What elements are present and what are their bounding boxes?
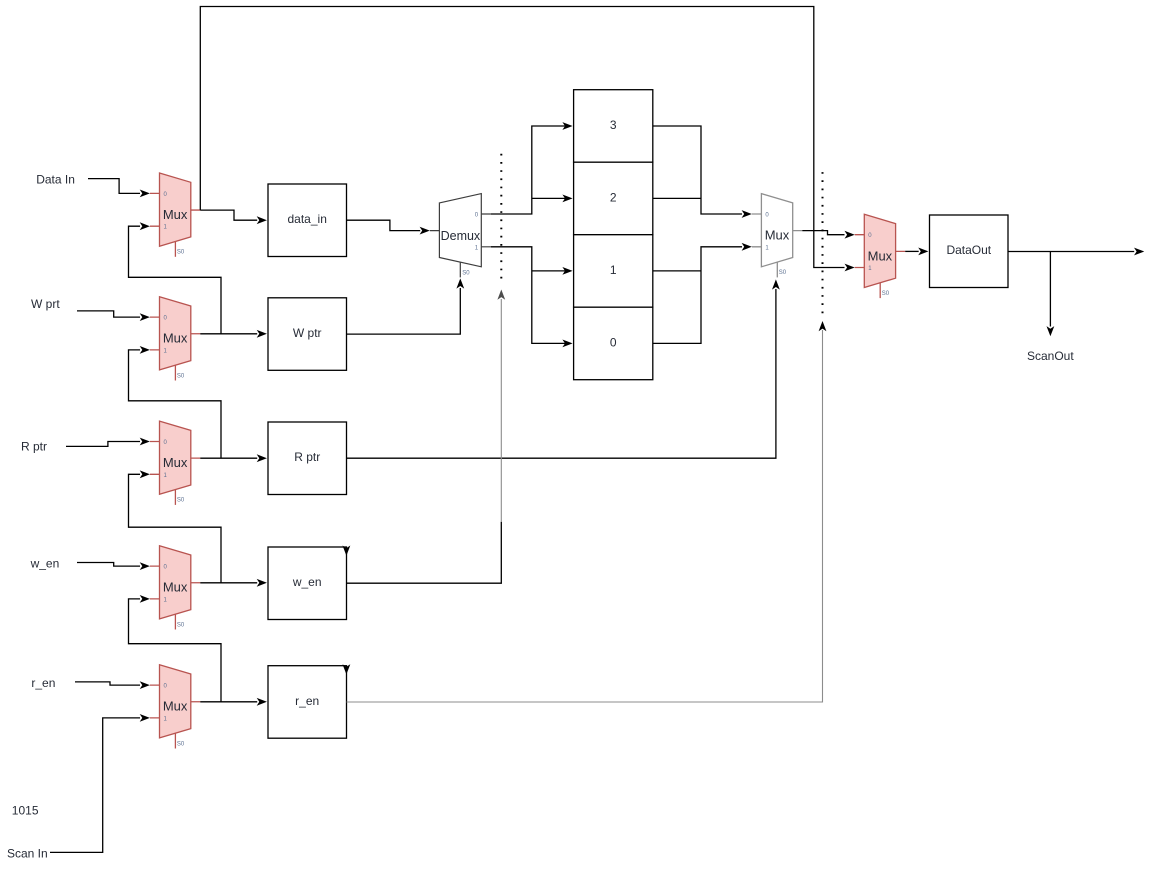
svg-text:S0: S0 bbox=[779, 270, 787, 276]
mux U4 (scan mux, pink) bbox=[150, 546, 201, 630]
wire Mux U8 output to DataOut register bbox=[905, 248, 928, 256]
wire data_in register to Demux input bbox=[347, 220, 430, 234]
svg-text:Mux: Mux bbox=[163, 455, 188, 470]
demux U6 bbox=[430, 194, 491, 278]
svg-text:Mux: Mux bbox=[868, 248, 893, 263]
wire Demux output 1 to cells 1 and 0 bbox=[491, 247, 573, 347]
svg-text:0: 0 bbox=[610, 335, 617, 349]
register r_en bbox=[268, 666, 347, 739]
mux U5 (scan mux, pink) bbox=[150, 665, 201, 749]
mux U3 (scan mux, pink) bbox=[150, 421, 201, 505]
wire r_en register up to read-enable dotted line bbox=[347, 321, 827, 702]
wire cells 0 and 1 to Mux U7 input 1 bbox=[653, 243, 752, 343]
wire Data In to mux input 0 bbox=[88, 179, 150, 198]
wire scan chain from Mux U5 output up to Mux U4 input 1 bbox=[129, 595, 222, 702]
wire Mux U1 output to data_in register bbox=[200, 210, 267, 224]
wire R ptr to mux input 0 bbox=[66, 438, 150, 447]
svg-text:S0: S0 bbox=[177, 622, 185, 628]
svg-text:R ptr: R ptr bbox=[294, 450, 320, 464]
register file cell 1 bbox=[574, 235, 653, 308]
wire scan chain from Mux U4 output up to Mux U3 input 1 bbox=[129, 470, 222, 582]
wire Mux U7 output to Mux U8 input 0 bbox=[802, 231, 854, 239]
svg-text:Data In: Data In bbox=[36, 173, 75, 187]
wire scan chain from Mux U2 output up to Mux U1 input 1 bbox=[129, 222, 222, 333]
svg-text:r_en: r_en bbox=[31, 676, 55, 690]
node R ptr input label bbox=[21, 440, 47, 454]
svg-text:DataOut: DataOut bbox=[946, 243, 991, 257]
wire Scan In to Mux U5 input 1 bbox=[50, 714, 150, 852]
node Scan In label bbox=[7, 847, 48, 861]
node W prt input label bbox=[31, 297, 60, 311]
svg-text:Scan In: Scan In bbox=[7, 847, 48, 861]
svg-text:S0: S0 bbox=[177, 741, 185, 747]
register R ptr bbox=[268, 422, 347, 495]
svg-text:Demux: Demux bbox=[441, 229, 481, 243]
svg-text:Mux: Mux bbox=[765, 228, 790, 243]
wire Mux U3 output to register bbox=[200, 454, 267, 462]
node ScanOut label bbox=[1027, 349, 1074, 363]
wire scan loop from Mux U1 output across top to Mux U8 input 1 bbox=[200, 7, 854, 272]
register w_en bbox=[268, 547, 347, 620]
svg-text:1: 1 bbox=[610, 263, 617, 277]
register W ptr bbox=[268, 298, 347, 371]
wire read-enable dotted line bbox=[822, 172, 824, 313]
wire W prt to mux input 0 bbox=[77, 311, 150, 321]
arrow into r_en register top-right corner bbox=[343, 664, 351, 674]
register file cell 3 bbox=[574, 90, 653, 163]
node r_en input label bbox=[31, 676, 55, 690]
wire DataOut branch down to ScanOut bbox=[1047, 252, 1055, 337]
svg-text:w_en: w_en bbox=[30, 556, 60, 570]
svg-text:W ptr: W ptr bbox=[293, 326, 322, 340]
svg-text:Mux: Mux bbox=[163, 331, 188, 346]
svg-text:3: 3 bbox=[610, 118, 617, 132]
node w_en input label bbox=[30, 556, 60, 570]
wire W ptr register to Demux select S0 bbox=[347, 278, 465, 334]
svg-text:w_en: w_en bbox=[292, 575, 322, 589]
wire Mux U5 output to register bbox=[200, 698, 267, 706]
node Data In input label bbox=[36, 173, 75, 187]
arrow into w_en register top-right corner bbox=[343, 546, 351, 556]
wire Demux output 0 to cells 3 and 2 bbox=[491, 122, 573, 214]
wire Mux U4 output to register bbox=[200, 579, 267, 587]
svg-text:W prt: W prt bbox=[31, 297, 60, 311]
wire w_en to mux input 0 bbox=[77, 562, 150, 570]
mux U2 (scan mux, pink) bbox=[150, 297, 201, 381]
mux U8 (output scan mux, pink) bbox=[855, 214, 906, 298]
svg-text:S0: S0 bbox=[177, 373, 185, 379]
node 1015 label bbox=[12, 803, 39, 817]
wire r_en to mux input 0 bbox=[75, 681, 150, 689]
svg-text:R ptr: R ptr bbox=[21, 440, 47, 454]
register DataOut bbox=[930, 215, 1009, 288]
svg-text:ScanOut: ScanOut bbox=[1027, 349, 1074, 363]
svg-text:S0: S0 bbox=[882, 291, 890, 297]
wire DataOut register output bbox=[1008, 248, 1144, 256]
mux U1 (scan mux, pink) bbox=[150, 173, 201, 257]
svg-text:2: 2 bbox=[610, 190, 617, 204]
svg-text:Mux: Mux bbox=[163, 580, 188, 595]
svg-text:S0: S0 bbox=[462, 270, 470, 276]
svg-text:data_in: data_in bbox=[288, 212, 327, 226]
svg-text:Mux: Mux bbox=[163, 699, 188, 714]
wire scan chain from Mux U3 output up to Mux U2 input 1 bbox=[129, 346, 222, 458]
mux U7 (read mux, white) bbox=[752, 194, 803, 278]
svg-text:1015: 1015 bbox=[12, 803, 39, 817]
svg-text:S0: S0 bbox=[177, 250, 185, 256]
wire w_en register up to write-enable dotted line bbox=[347, 290, 506, 584]
wire Mux U2 output to register bbox=[200, 330, 267, 338]
register file cell 0 bbox=[574, 307, 653, 380]
wire cells 3 and 2 to Mux U7 input 0 bbox=[653, 126, 752, 218]
svg-text:r_en: r_en bbox=[295, 694, 319, 708]
wire write-enable dotted line bbox=[500, 154, 502, 285]
register file cell 2 bbox=[574, 162, 653, 235]
svg-text:S0: S0 bbox=[177, 498, 185, 504]
register data_in bbox=[268, 184, 347, 257]
wire R ptr register to Mux U7 select S0 bbox=[347, 279, 780, 458]
svg-text:Mux: Mux bbox=[163, 207, 188, 222]
